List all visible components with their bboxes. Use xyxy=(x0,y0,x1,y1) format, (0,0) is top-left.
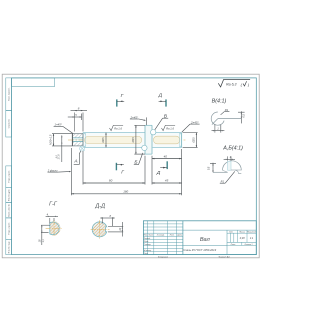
svg-text:Листов 1: Листов 1 xyxy=(243,244,252,246)
svg-text:Подп.: Подп. xyxy=(170,234,175,237)
svg-text:1×45°: 1×45° xyxy=(54,123,63,127)
svg-text:Д-Д: Д-Д xyxy=(94,204,105,210)
svg-text:Утв.: Утв. xyxy=(144,253,149,255)
svg-text:Справ. №: Справ. № xyxy=(7,118,10,128)
svg-text:Н.контр.: Н.контр. xyxy=(144,250,152,252)
svg-text:Ra 1,6: Ra 1,6 xyxy=(114,126,122,130)
svg-text:80: 80 xyxy=(109,179,113,183)
svg-text:Инв. № дубл.: Инв. № дубл. xyxy=(7,188,10,201)
svg-text:Формат A3: Формат A3 xyxy=(219,255,231,258)
svg-text:22: 22 xyxy=(119,227,122,231)
svg-text:2 фаски: 2 фаски xyxy=(47,168,58,172)
svg-text:0,5: 0,5 xyxy=(243,113,246,117)
svg-text:Г: Г xyxy=(121,93,124,99)
svg-text:Сталь 45 ГОСТ 1050-2013: Сталь 45 ГОСТ 1050-2013 xyxy=(183,248,217,252)
svg-text:Ra 6,3: Ra 6,3 xyxy=(226,83,236,87)
svg-text:Подп. и дата: Подп. и дата xyxy=(8,222,10,235)
svg-text:М20×1,5: М20×1,5 xyxy=(49,134,53,145)
svg-text:Масштаб: Масштаб xyxy=(247,232,256,234)
svg-text:Копировал: Копировал xyxy=(158,256,169,258)
svg-text:Ø45: Ø45 xyxy=(131,137,135,144)
svg-text:Г: Г xyxy=(121,170,124,176)
svg-text:45: 45 xyxy=(165,179,169,183)
svg-text:Перв. примен.: Перв. примен. xyxy=(8,87,10,101)
svg-text:Дата: Дата xyxy=(176,235,182,237)
svg-text:В(4:1): В(4:1) xyxy=(212,99,227,105)
svg-text:1:1: 1:1 xyxy=(250,237,254,240)
svg-text:40: 40 xyxy=(164,154,168,158)
svg-text:Ra 1,6: Ra 1,6 xyxy=(166,126,174,130)
svg-text:Подп. и дата: Подп. и дата xyxy=(8,170,10,183)
svg-text:Изм.: Изм. xyxy=(144,235,148,237)
svg-text:0,48: 0,48 xyxy=(240,237,245,240)
svg-text:Лист: Лист xyxy=(230,244,236,246)
svg-text:Разраб.: Разраб. xyxy=(144,238,151,240)
svg-text:0,5: 0,5 xyxy=(208,166,211,170)
svg-text:Лит.: Лит. xyxy=(228,232,234,234)
svg-text:Д: Д xyxy=(158,93,163,99)
svg-text:Инв. № подл.: Инв. № подл. xyxy=(7,240,10,253)
svg-text:Вал: Вал xyxy=(200,237,211,243)
svg-text:Ø25: Ø25 xyxy=(101,137,105,144)
svg-text:160: 160 xyxy=(123,190,128,194)
svg-text:Пров.: Пров. xyxy=(144,241,149,243)
svg-text:Г-Г: Г-Г xyxy=(49,201,58,207)
svg-text:№ докум.: № докум. xyxy=(157,234,165,237)
svg-text:Масса: Масса xyxy=(240,232,245,234)
svg-text:Ø25: Ø25 xyxy=(191,137,195,144)
svg-text:Взам. инв. №: Взам. инв. № xyxy=(7,203,10,216)
svg-text:Т.контр.: Т.контр. xyxy=(144,244,152,246)
svg-text:Лист: Лист xyxy=(147,235,153,237)
svg-text:А,Б(4:1): А,Б(4:1) xyxy=(222,146,243,152)
svg-text:Д: Д xyxy=(156,170,161,176)
svg-text:А: А xyxy=(73,158,77,164)
